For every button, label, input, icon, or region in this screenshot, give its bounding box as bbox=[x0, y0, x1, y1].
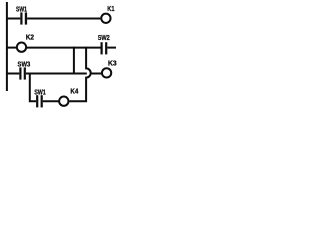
svg-text:K2: K2 bbox=[26, 35, 34, 42]
svg-text:K1: K1 bbox=[107, 6, 114, 13]
svg-text:K3: K3 bbox=[108, 60, 117, 67]
svg-text:SW1: SW1 bbox=[34, 89, 46, 96]
svg-text:SW2: SW2 bbox=[98, 35, 110, 42]
svg-text:SW3: SW3 bbox=[18, 61, 31, 68]
svg-text:K4: K4 bbox=[70, 88, 78, 95]
svg-text:SW1: SW1 bbox=[16, 6, 27, 13]
